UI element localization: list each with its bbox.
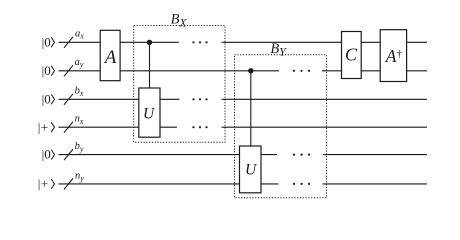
svg-text:U: U [245,161,258,178]
svg-text:|0: |0 [42,34,51,49]
svg-text:|0: |0 [42,147,51,162]
svg-text:|0: |0 [42,91,51,106]
svg-text:|+: |+ [38,119,49,134]
svg-text:|+: |+ [38,176,49,191]
svg-text:A: A [103,47,117,68]
svg-text:U: U [143,106,156,123]
svg-text:|0: |0 [42,63,51,78]
svg-text:C: C [345,44,358,64]
